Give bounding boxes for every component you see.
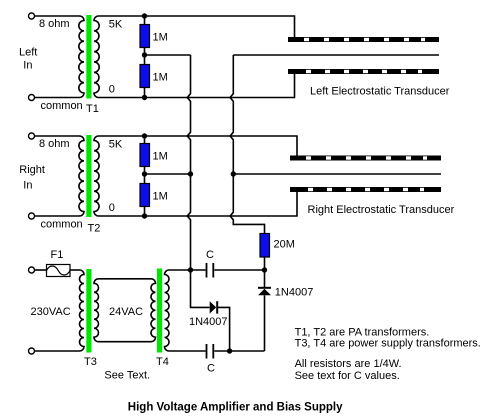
svg-text:C: C (206, 249, 214, 261)
wire: T4 bottom row to capacitor C bottom (169, 350, 206, 352)
svg-text:1M: 1M (153, 151, 168, 163)
wire: resistor column R3 R4 (144, 136, 146, 216)
fuse F1 (47, 265, 71, 277)
wire: T2 secondary bottom to right bottom plate (99, 192, 298, 216)
svg-text:T3, T4 are power supply transf: T3, T4 are power supply transformers. (295, 337, 481, 349)
wire: vertical B from left diaphragm down to 20M (with hops) (230, 55, 264, 234)
wire: C top to HV node (214, 269, 264, 271)
node: T1 top junction (142, 13, 147, 18)
wire (35, 269, 47, 271)
wire: right diaphragm line (233, 173, 441, 175)
resistor R2 1M (140, 65, 150, 88)
wire: T2 mid junction to vertical A (145, 173, 191, 175)
svg-text:High Voltage Amplifier and Bia: High Voltage Amplifier and Bias Supply (128, 402, 343, 414)
node: T1 bottom junction (142, 95, 147, 100)
wire: branch from T4 top node down to diode D1 (191, 270, 210, 307)
wire (70, 269, 80, 271)
svg-text:1M: 1M (153, 72, 168, 84)
wire: T1 secondary top to left top plate (99, 16, 295, 37)
transformer T3 core (86, 269, 91, 353)
node: vertical A joins right mid row (188, 171, 193, 176)
node: D1 cathode joins bottom row (227, 348, 232, 353)
svg-text:5K: 5K (109, 19, 123, 31)
wire (35, 15, 80, 17)
transformer T1 core (86, 15, 91, 99)
svg-text:8 ohm: 8 ohm (39, 18, 70, 30)
svg-text:20M: 20M (274, 239, 295, 251)
svg-text:1N4007: 1N4007 (189, 316, 228, 328)
wire: left diaphragm line (233, 54, 439, 56)
node: T2 mid junction (142, 171, 147, 176)
svg-text:Right: Right (19, 164, 45, 176)
svg-text:0: 0 (109, 202, 115, 214)
svg-text:1M: 1M (153, 191, 168, 203)
svg-text:T3: T3 (84, 356, 97, 368)
terminal: 230VAC top (29, 267, 35, 273)
svg-text:5K: 5K (109, 139, 123, 151)
wire (35, 97, 80, 99)
transformer T2 primary winding (79, 136, 84, 216)
wire: T1 secondary bottom to left bottom plate (99, 74, 295, 98)
capacitor C top (206, 263, 208, 278)
transformer T2 secondary winding (94, 136, 99, 216)
svg-text:T2: T2 (88, 223, 101, 235)
transformer T4 core (157, 269, 162, 353)
node: T2 bottom junction (142, 213, 147, 218)
wire (35, 350, 80, 352)
wire: T1 mid junction to vertical A (145, 54, 191, 56)
transformer T1 secondary winding (94, 16, 99, 98)
svg-text:common: common (41, 219, 83, 231)
svg-text:1N4007: 1N4007 (275, 287, 314, 299)
svg-text:In: In (23, 60, 32, 72)
node: HV output junction (262, 267, 267, 272)
svg-text:See text for C values.: See text for C values. (295, 370, 400, 382)
wire: C bottom to D2 corner (214, 350, 264, 352)
right transducer bottom plate (290, 187, 441, 192)
wire: HV node down to diode D2 (264, 270, 266, 287)
wire: vertical A from T1 mid net down to T4 top (with hops) (187, 55, 190, 270)
transformer T3 secondary winding (94, 279, 99, 342)
resistor 20M (260, 234, 270, 258)
right transducer top plate (290, 156, 441, 161)
left transducer bottom plate (288, 69, 439, 74)
transformer T4 secondary winding (165, 270, 170, 351)
svg-text:common: common (41, 100, 83, 112)
wire: T4 top row to capacitor C top (169, 269, 206, 271)
terminal: Right In 8 ohm top (29, 133, 35, 139)
wire (35, 135, 80, 137)
svg-text:8 ohm: 8 ohm (39, 138, 70, 150)
svg-text:T1: T1 (86, 103, 99, 115)
transformer T4 primary winding (151, 279, 156, 342)
svg-text:Left Electrostatic Transducer: Left Electrostatic Transducer (310, 86, 450, 98)
wire: resistor column R1 R2 (144, 16, 146, 98)
wire: T2 secondary top to right top plate (99, 136, 298, 156)
terminal: Left In 8 ohm top (29, 13, 35, 19)
wire: T3 to T4 top (99, 278, 152, 280)
svg-text:T4: T4 (156, 356, 169, 368)
wire (35, 215, 80, 217)
terminal: Left In common (29, 95, 35, 101)
left transducer top plate (288, 37, 439, 42)
svg-text:F1: F1 (51, 249, 64, 261)
transformer T3 primary winding (80, 270, 85, 351)
diode D1 1N4007 horizontal (210, 301, 217, 313)
node: T2 top junction (142, 133, 147, 138)
node: vertical B joins right diaphragm (231, 171, 236, 176)
node: vertical A joins T4 top (188, 267, 193, 272)
svg-text:C: C (207, 363, 215, 375)
wire: D1 cathode to bottom row (217, 307, 229, 351)
resistor R4 1M (140, 184, 150, 207)
wire: 20M bottom to HV node (264, 257, 266, 270)
terminal: 230VAC bottom (29, 348, 35, 354)
svg-text:See Text.: See Text. (104, 370, 150, 382)
svg-text:1M: 1M (153, 32, 168, 44)
wire: T3 to T4 bottom (99, 341, 152, 343)
svg-text:Right Electrostatic Transducer: Right Electrostatic Transducer (308, 204, 455, 216)
resistor R3 1M (140, 144, 150, 167)
svg-text:0: 0 (109, 84, 115, 96)
svg-text:24VAC: 24VAC (109, 306, 143, 318)
svg-text:In: In (23, 180, 32, 192)
resistor R1 1M (140, 25, 150, 48)
transformer T1 primary winding (79, 16, 84, 98)
capacitor C bottom (206, 344, 208, 359)
svg-text:230VAC: 230VAC (31, 306, 71, 318)
terminal: Right In common (29, 213, 35, 219)
svg-text:Left: Left (19, 47, 37, 59)
svg-text:All resistors are 1/4W.: All resistors are 1/4W. (295, 358, 402, 370)
diode D2 1N4007 vertical (258, 287, 271, 289)
wire: D2 anode down to bottom row corner (264, 295, 266, 351)
node: T1 mid junction (142, 52, 147, 57)
transformer T2 core (86, 135, 91, 217)
